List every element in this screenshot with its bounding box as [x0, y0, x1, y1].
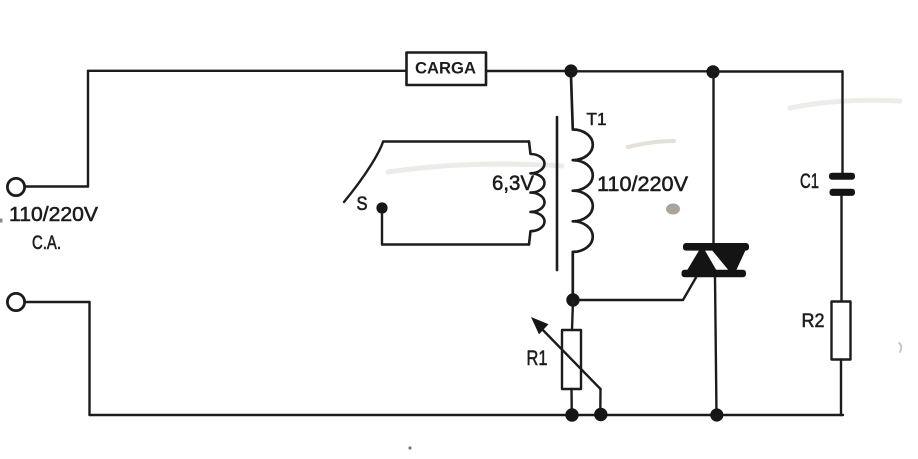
scan artifact tick left edge	[0, 219, 3, 223]
scan artifact smudge over switch loop	[388, 164, 562, 172]
wire bottom bus	[90, 414, 844, 416]
svg-text:S: S	[357, 193, 368, 215]
node R1 bottom junction	[565, 408, 578, 421]
switch S contact dot	[376, 202, 387, 213]
node wiper bottom junction	[594, 408, 607, 421]
wire bottom terminal to corner	[25, 301, 90, 303]
wire terminal-to-corner	[25, 185, 88, 187]
node triac top junction	[706, 65, 719, 78]
wire bottom-left riser	[88, 302, 90, 415]
wire R1 wiper to bottom bus	[599, 389, 602, 414]
wire left riser	[87, 71, 89, 187]
scan artifact smudge top right	[790, 100, 900, 108]
wire top bus left	[88, 70, 406, 72]
node gate junction	[566, 293, 579, 306]
wire C1 to R2	[840, 196, 842, 302]
svg-text:110/220V: 110/220V	[9, 204, 99, 226]
switch S blade	[344, 142, 383, 202]
wire R1 bottom lead	[570, 389, 573, 414]
svg-text:R2: R2	[802, 310, 825, 332]
wire CARGA to T1 node	[486, 70, 571, 72]
svg-text:110/220V: 110/220V	[597, 172, 689, 196]
wire R2 to bottom corner	[840, 360, 842, 416]
triac TRC body	[682, 243, 750, 277]
svg-text:6,3V: 6,3V	[492, 172, 534, 195]
transformer T1 secondary winding 6,3V	[529, 142, 545, 245]
wire triac node to right corner	[713, 70, 843, 72]
rheostat R1 arrowhead	[531, 317, 549, 334]
terminal top (110/220V input)	[7, 178, 24, 195]
capacitor C1 plates	[829, 173, 855, 180]
load box CARGA	[407, 53, 487, 86]
node T1 top junction	[564, 64, 577, 77]
svg-text:T1: T1	[587, 109, 607, 129]
terminal bottom (110/220V input)	[7, 293, 24, 310]
svg-text:C1: C1	[800, 170, 819, 193]
transformer T1 core	[556, 117, 559, 270]
scan artifact comma right side	[899, 343, 901, 352]
svg-text:CARGA: CARGA	[415, 59, 476, 78]
rheostat R1 wiper arrow shaft	[539, 326, 601, 390]
wire switch loop top	[383, 140, 529, 142]
wire right riser to C1	[841, 72, 843, 174]
scan artifact dot bottom center	[408, 446, 411, 449]
wire switch to loop bottom	[381, 213, 383, 245]
svg-text:C.A.: C.A.	[32, 233, 61, 254]
wire triac top lead	[712, 77, 714, 244]
scan artifact speck right of primary	[666, 204, 680, 215]
wire switch loop bottom	[382, 243, 529, 245]
svg-text:R1: R1	[527, 347, 548, 370]
wire gate horizontal	[579, 278, 696, 301]
wire gate node to R1	[572, 300, 573, 330]
resistor R2	[832, 302, 851, 360]
wire T1 node to triac node	[571, 70, 713, 72]
transformer T1 primary winding 110/220V	[571, 76, 593, 299]
wire triac bottom lead	[715, 278, 717, 416]
rheostat R1 body	[562, 330, 581, 389]
scan artifact smudge right of core	[628, 141, 674, 147]
node triac bottom junction	[710, 408, 723, 421]
